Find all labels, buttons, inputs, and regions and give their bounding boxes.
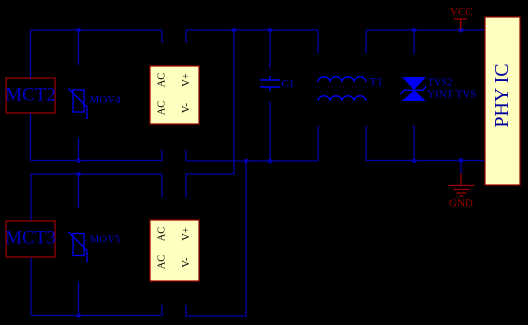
wire bridge U2 V- stub xyxy=(185,150,187,161)
svg-text:AC: AC xyxy=(157,73,168,88)
wire top rail MCT3 loop xyxy=(31,173,162,175)
svg-text:PHY IC: PHY IC xyxy=(491,63,513,127)
capacitor C1 xyxy=(260,76,294,91)
wire bridge U2 AC bottom stub xyxy=(161,150,163,161)
wire TVS top stub xyxy=(413,30,415,54)
wire T1 secondary bottom lead xyxy=(365,126,367,161)
svg-text:V+: V+ xyxy=(181,227,192,241)
svg-text:C1: C1 xyxy=(282,78,295,90)
junction dot MOV4 top xyxy=(76,28,81,33)
junction dot C1 top xyxy=(268,28,273,33)
junction dot GND xyxy=(458,158,463,163)
wire MOV5 bottom lead xyxy=(78,282,80,316)
wire top rail MCT2 loop xyxy=(31,29,163,31)
svg-text:TVS2: TVS2 xyxy=(428,77,453,88)
junction dot V+ jog xyxy=(232,28,237,33)
svg-text:MCT3: MCT3 xyxy=(5,228,56,249)
junction dot VCC xyxy=(458,27,463,32)
svg-text:MOV5: MOV5 xyxy=(90,234,122,246)
TVS diode TVS2 xyxy=(401,77,477,101)
wire MCT2 left lower xyxy=(30,113,32,161)
svg-text:AC: AC xyxy=(157,101,168,116)
wire MOV4 bottom lead xyxy=(78,138,80,161)
power symbol VCC xyxy=(450,6,473,30)
varistor MOV4 xyxy=(69,89,122,120)
junction dot V- return xyxy=(244,159,249,164)
wire MCT3 left lower xyxy=(30,257,32,316)
svg-text:AC: AC xyxy=(157,255,168,270)
wire V- return to bridge U3 xyxy=(186,161,246,316)
wire V+ jog to bridge U3 xyxy=(186,30,234,198)
svg-text:T1: T1 xyxy=(370,75,383,89)
IC PHY xyxy=(485,17,520,185)
wire bridge U3 AC top stub xyxy=(161,174,163,198)
svg-text:GND: GND xyxy=(449,198,473,210)
wire MCT3 left upper xyxy=(30,174,32,221)
junction dot MOV5 top xyxy=(76,172,81,177)
svg-text:V-: V- xyxy=(181,102,192,113)
svg-text:VCC: VCC xyxy=(450,6,473,18)
wire top rail right to PHY xyxy=(366,29,485,31)
wire bottom rail MCT2 loop xyxy=(31,160,163,162)
junction dot MOV4 bottom xyxy=(76,158,81,163)
wire T1 primary top lead xyxy=(317,30,319,53)
wire MOV4 top lead xyxy=(78,30,80,65)
connector MCT3 xyxy=(5,221,56,257)
junction dot TVS bottom xyxy=(412,159,417,164)
svg-text:V+: V+ xyxy=(181,73,192,87)
wire C1 top lead xyxy=(269,30,271,68)
wire V+ top rail xyxy=(186,29,318,31)
svg-text:MCT2: MCT2 xyxy=(5,85,56,106)
wire GND stub xyxy=(460,161,462,174)
svg-text:AC: AC xyxy=(157,227,168,242)
wire MOV5 top lead xyxy=(78,174,80,208)
varistor MOV5 xyxy=(69,232,122,263)
wire bottom rail right to PHY xyxy=(366,160,485,162)
bridge rectifier U2 xyxy=(150,66,199,124)
wire TVS bottom stub xyxy=(413,125,415,161)
wire bridge U3 AC bottom stub xyxy=(161,305,163,316)
transformer T1 xyxy=(318,75,383,102)
svg-text:YINT TVS: YINT TVS xyxy=(427,89,476,101)
wire T1 primary bottom lead xyxy=(317,126,319,161)
junction dot MOV5 bottom xyxy=(76,313,81,318)
svg-text:V-: V- xyxy=(181,257,192,268)
bridge rectifier U3 xyxy=(150,220,199,281)
wire bridge U2 V+ stub xyxy=(185,30,187,43)
ground symbol GND xyxy=(449,174,475,210)
junction dot C1 bottom xyxy=(268,159,273,164)
wire bridge U2 AC top stub xyxy=(161,30,163,43)
svg-text:MOV4: MOV4 xyxy=(90,94,122,106)
wire T1 secondary top lead xyxy=(365,30,367,53)
wire C1 bottom lead xyxy=(269,102,271,162)
wire V- rail xyxy=(186,160,318,162)
connector MCT2 xyxy=(5,78,56,113)
wire MCT2 left upper xyxy=(30,30,32,78)
wire bottom rail MCT3 loop xyxy=(31,315,162,317)
junction dot TVS top xyxy=(412,28,417,33)
